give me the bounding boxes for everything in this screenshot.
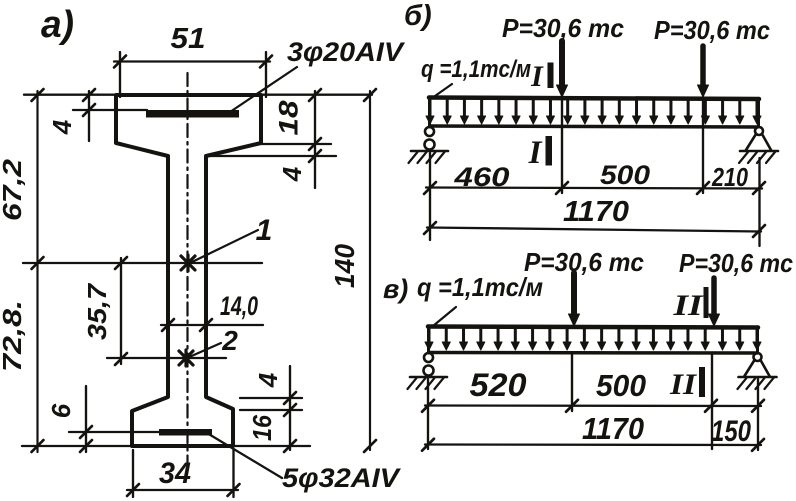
svg-text:1170: 1170 <box>563 196 629 228</box>
svg-text:q =1,1mc/м: q =1,1mc/м <box>421 56 531 83</box>
svg-text:140: 140 <box>329 244 360 288</box>
svg-text:II: II <box>669 368 698 401</box>
svg-text:4: 4 <box>277 166 307 182</box>
svg-text:в): в) <box>383 274 408 304</box>
svg-text:4: 4 <box>253 372 283 388</box>
svg-text:1: 1 <box>256 214 273 247</box>
svg-text:34: 34 <box>159 457 191 490</box>
svg-text:P=30,6 mc: P=30,6 mc <box>654 15 770 45</box>
svg-text:б): б) <box>404 0 432 32</box>
svg-text:72,8.: 72,8. <box>0 300 27 372</box>
svg-text:3φ20AIV: 3φ20AIV <box>287 37 405 67</box>
svg-text:1170: 1170 <box>582 411 644 446</box>
svg-text:I: I <box>530 60 544 93</box>
svg-text:18: 18 <box>273 101 303 136</box>
svg-text:6: 6 <box>46 403 76 418</box>
svg-text:P=30,6 mc: P=30,6 mc <box>502 13 625 43</box>
svg-text:a): a) <box>41 4 74 46</box>
svg-text:5φ32AIV: 5φ32AIV <box>282 463 401 493</box>
svg-text:520: 520 <box>470 367 527 403</box>
svg-text:150: 150 <box>711 415 751 448</box>
svg-text:35,7: 35,7 <box>82 282 112 340</box>
svg-text:460: 460 <box>453 162 509 192</box>
svg-text:16: 16 <box>247 415 277 441</box>
svg-text:51: 51 <box>171 23 206 55</box>
svg-text:14,0: 14,0 <box>220 291 258 321</box>
svg-text:210: 210 <box>711 162 748 192</box>
svg-text:500: 500 <box>600 160 650 190</box>
svg-text:I: I <box>528 135 543 171</box>
svg-text:4: 4 <box>47 119 77 135</box>
svg-text:2: 2 <box>221 325 238 356</box>
svg-text:67,2: 67,2 <box>0 158 27 221</box>
svg-text:II: II <box>672 289 704 322</box>
svg-text:P=30,6 mc: P=30,6 mc <box>679 248 793 278</box>
svg-text:500: 500 <box>596 368 646 403</box>
svg-text:q =1,1mc/м: q =1,1mc/м <box>417 272 543 302</box>
